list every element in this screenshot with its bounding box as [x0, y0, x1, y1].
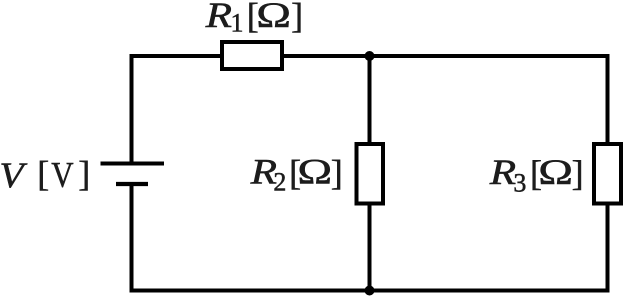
node A junction dot: [365, 51, 375, 61]
svg-text:R: R: [489, 152, 516, 192]
svg-text:3: 3: [513, 169, 526, 198]
label R2 [ohm]: [250, 152, 343, 197]
svg-text:]: ]: [331, 153, 343, 193]
node B junction dot: [365, 286, 375, 296]
resistor R2 (box): [357, 144, 384, 204]
svg-text:2: 2: [273, 168, 286, 197]
wire: R1 right lead to node A: [282, 54, 370, 58]
svg-text:V: V: [51, 155, 73, 195]
wire: R3 bottom lead down and left to node B: [370, 202, 608, 291]
svg-text:Ω: Ω: [538, 153, 573, 193]
svg-text:]: ]: [291, 0, 303, 36]
wire: node B left and up to source - terminal: [132, 185, 370, 291]
resistor R1 (box): [222, 42, 282, 69]
voltage source V: short negative plate: [116, 182, 148, 186]
svg-text:Ω: Ω: [297, 152, 332, 192]
svg-text:1: 1: [231, 9, 244, 38]
svg-text:V: V: [0, 156, 28, 196]
label R1 [ohm]: [205, 0, 304, 37]
svg-text:R: R: [205, 0, 232, 35]
wire: node A down to R2 top lead: [368, 56, 372, 145]
resistor R3 (box): [594, 144, 621, 204]
label R3 [ohm]: [489, 152, 584, 197]
svg-text:Ω: Ω: [256, 0, 291, 36]
svg-text:]: ]: [572, 153, 584, 193]
wire: R2 bottom lead down to node B: [368, 202, 372, 291]
svg-text:[: [: [37, 154, 49, 194]
label V [V]: [0, 154, 90, 196]
svg-text:]: ]: [78, 154, 90, 194]
wire: from source + terminal up and right to R1 left lead: [132, 56, 223, 163]
voltage source V: long positive plate: [101, 162, 165, 166]
wire: node A right and down to R3 top lead: [370, 56, 608, 145]
